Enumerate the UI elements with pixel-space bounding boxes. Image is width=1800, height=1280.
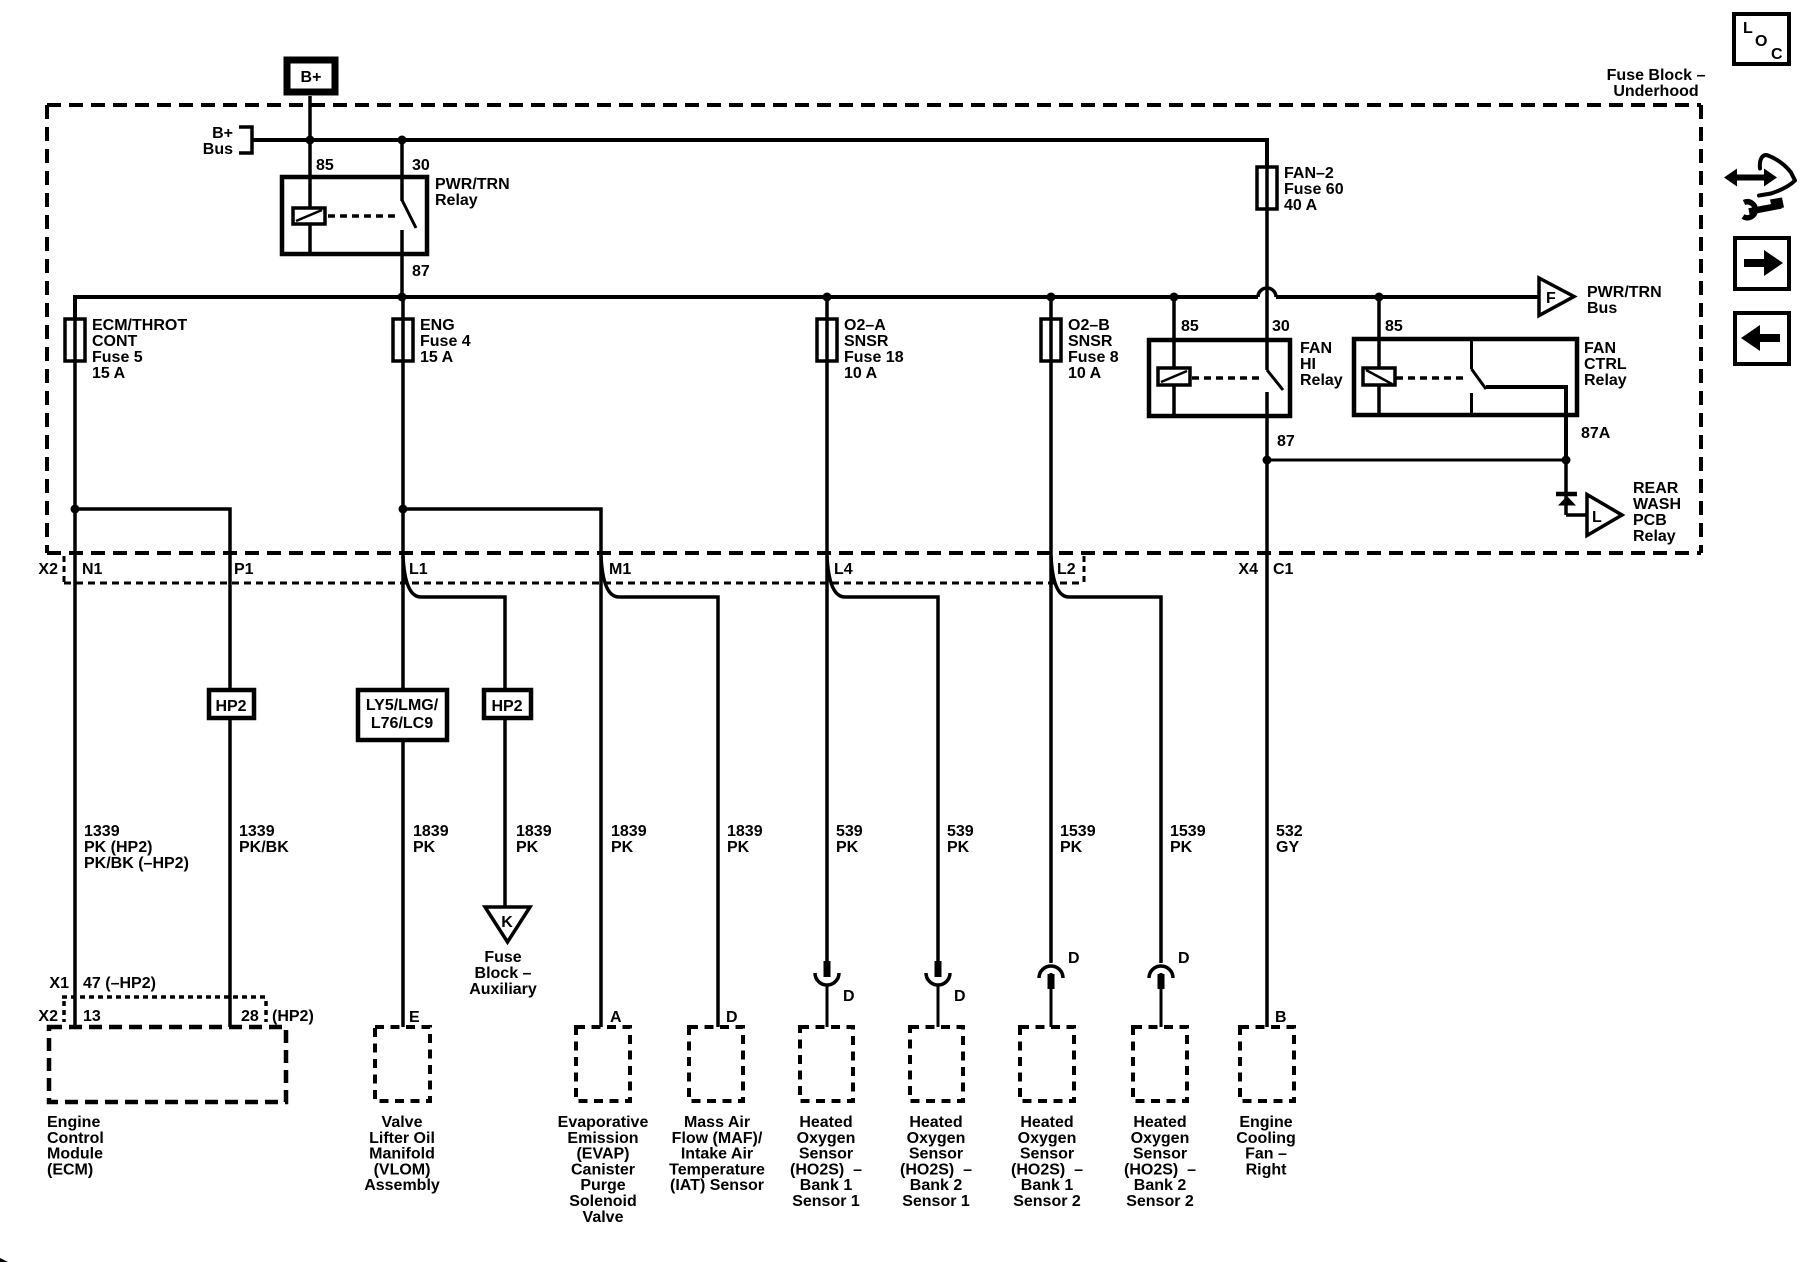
svg-text:PK: PK [727, 839, 750, 856]
svg-text:Bank 2: Bank 2 [910, 1177, 963, 1194]
svg-text:Sensor: Sensor [799, 1146, 853, 1163]
relay PWR/TRN box [282, 177, 427, 254]
svg-text:13: 13 [83, 1008, 101, 1025]
connector dashed box: VLOM [375, 1027, 430, 1101]
svg-text:GY: GY [1276, 839, 1299, 856]
svg-text:Fuse 18: Fuse 18 [844, 349, 904, 366]
connector dashed box: MAF/IAT sensor [689, 1027, 743, 1101]
connector dashed box: HO2S bank1 sensor2 [1020, 1027, 1074, 1101]
svg-text:87A: 87A [1581, 425, 1611, 442]
svg-text:30: 30 [412, 157, 430, 174]
svg-text:1839: 1839 [516, 823, 552, 840]
svg-text:(HP2): (HP2) [272, 1008, 314, 1025]
svg-text:Fuse 5: Fuse 5 [92, 349, 143, 366]
svg-text:(HO2S) –: (HO2S) – [790, 1161, 862, 1178]
wire jog L1 to auxiliary feed [403, 556, 505, 690]
svg-text:D: D [1068, 950, 1080, 967]
svg-text:L4: L4 [834, 561, 853, 578]
wire L4: O2-A fuse down to HO2S B1S1 [825, 299, 829, 962]
svg-text:Sensor: Sensor [909, 1146, 963, 1163]
wire jog L4 to HO2S B2S1 [827, 556, 938, 962]
svg-text:Block –: Block – [475, 965, 532, 982]
svg-text:Relay: Relay [1584, 372, 1627, 389]
svg-text:FAN: FAN [1584, 340, 1616, 357]
label Fuse Block - Underhood [1607, 67, 1706, 100]
wire: PWR/TRN 87 output bus with hop over fan wire [75, 297, 1539, 319]
svg-text:FAN: FAN [1300, 340, 1332, 357]
svg-text:A: A [610, 1009, 622, 1026]
B+ Bus label and bracket [203, 125, 252, 158]
relay FAN HI coil [1158, 368, 1190, 385]
svg-text:Lifter Oil: Lifter Oil [369, 1130, 435, 1147]
junction node at 87 [1263, 456, 1272, 465]
connector pin labels [38, 561, 1293, 578]
junction node at relay pin 30 tap [398, 136, 407, 145]
label X1 row: 47 (-HP2) [49, 975, 156, 992]
wire P1 below HP2 box to ECM pin 28 [228, 718, 232, 1027]
svg-text:1839: 1839 [413, 823, 449, 840]
svg-text:Bus: Bus [203, 141, 233, 158]
fuse O2-B SNSR Fuse 8 [1041, 317, 1119, 382]
svg-text:85: 85 [1385, 318, 1403, 335]
label Valve Lifter Oil Manifold (VLOM) Assembly [364, 1114, 440, 1194]
svg-text:Purge: Purge [580, 1177, 625, 1194]
connector dashed box: HO2S bank2 sensor1 [910, 1027, 963, 1101]
nav icon: double arrow with wrench [1724, 155, 1795, 218]
option box HP2 (auxiliary wire) [484, 690, 531, 718]
svg-text:PK: PK [611, 839, 634, 856]
svg-text:Emission: Emission [567, 1130, 638, 1147]
svg-text:Sensor 2: Sensor 2 [1126, 1193, 1194, 1210]
option box LY5/LMG/L76/LC9 [358, 690, 447, 740]
relay FAN CTRL switch common from top [1470, 341, 1473, 369]
svg-text:L: L [1743, 20, 1753, 37]
svg-text:K: K [501, 914, 513, 931]
wire label 539 PK (B1S1) [836, 823, 863, 856]
svg-text:Canister: Canister [571, 1161, 635, 1178]
relay FAN CTRL box [1354, 339, 1577, 415]
svg-text:Relay: Relay [1633, 528, 1676, 545]
svg-text:E: E [409, 1009, 420, 1026]
svg-text:ECM/THROT: ECM/THROT [92, 317, 187, 334]
svg-text:Engine: Engine [1239, 1114, 1292, 1131]
wire B+ terminal down to PWR/TRN relay coil [308, 96, 312, 208]
label PWR/TRN Relay [435, 176, 510, 209]
junction node at B+ drop [306, 136, 315, 145]
relay PWR/TRN coil [293, 208, 325, 224]
nav box: arrow right [1735, 238, 1789, 289]
label Engine Control Module (ECM) [47, 1114, 104, 1178]
svg-text:Fuse 60: Fuse 60 [1284, 181, 1344, 198]
svg-text:D: D [1178, 950, 1190, 967]
svg-text:Cooling: Cooling [1236, 1130, 1296, 1147]
svg-text:28: 28 [241, 1008, 259, 1025]
relay PWR/TRN dashed actuator link [328, 214, 398, 218]
svg-text:Bank 1: Bank 1 [1021, 1177, 1074, 1194]
label FAN HI Relay [1300, 340, 1343, 389]
svg-text:L2: L2 [1057, 561, 1076, 578]
svg-text:PK/BK: PK/BK [239, 839, 289, 856]
svg-text:1539: 1539 [1060, 823, 1096, 840]
svg-text:HI: HI [1300, 356, 1316, 373]
svg-text:FAN–2: FAN–2 [1284, 165, 1334, 182]
wire L1: ENG fuse down to VLOM [401, 299, 405, 690]
fuse O2-A SNSR Fuse 18 [817, 317, 904, 382]
svg-text:Module: Module [47, 1146, 103, 1163]
svg-text:Assembly: Assembly [364, 1177, 440, 1194]
label Mass Air Flow (MAF)/IAT Sensor [669, 1114, 765, 1194]
svg-text:PK (HP2): PK (HP2) [84, 839, 152, 856]
svg-text:SNSR: SNSR [1068, 333, 1113, 350]
svg-text:Temperature: Temperature [669, 1161, 765, 1178]
svg-text:539: 539 [836, 823, 863, 840]
svg-text:B+: B+ [212, 125, 233, 142]
connector row long-dash line (fuse block bottom edge) [47, 551, 1701, 555]
grommet pass-through D (HO2S B1S2) [1039, 966, 1063, 989]
label REAR WASH PCB Relay [1633, 480, 1681, 545]
svg-text:ENG: ENG [420, 317, 455, 334]
relay FAN CTRL coil [1363, 368, 1395, 385]
svg-text:PWR/TRN: PWR/TRN [1587, 284, 1662, 301]
wire jog L2 to HO2S B2S2 [1051, 556, 1161, 963]
wire branch to P1 [75, 509, 230, 690]
wire: B+ bus horizontal [252, 140, 1267, 167]
svg-text:1839: 1839 [611, 823, 647, 840]
svg-text:(ECM): (ECM) [47, 1161, 93, 1178]
svg-text:(EVAP): (EVAP) [576, 1146, 629, 1163]
connector dashed box: EVAP valve [576, 1027, 630, 1101]
connector dashed box: Engine Control Module [49, 1027, 286, 1102]
svg-text:PK: PK [413, 839, 436, 856]
svg-text:CTRL: CTRL [1584, 356, 1627, 373]
svg-text:Fuse Block –: Fuse Block – [1607, 67, 1706, 84]
wire label 1839 PK (VLOM) [413, 823, 449, 856]
svg-text:Valve: Valve [382, 1114, 423, 1131]
label HO2S Bank 2 Sensor 1 [900, 1114, 972, 1210]
junction node at 87A [1562, 456, 1571, 465]
option box HP2 (P1 wire) [209, 690, 254, 718]
junction node L1 branch [399, 505, 408, 514]
svg-text:Bank 1: Bank 1 [800, 1177, 853, 1194]
svg-text:C: C [1771, 46, 1783, 63]
svg-text:O2–A: O2–A [844, 317, 886, 334]
svg-text:1839: 1839 [727, 823, 763, 840]
pin labels FAN HI relay [1181, 318, 1295, 450]
svg-text:WASH: WASH [1633, 496, 1681, 513]
svg-text:Manifold: Manifold [369, 1146, 435, 1163]
page corner tick [0, 1258, 8, 1262]
connector dashed box: HO2S bank1 sensor1 [800, 1027, 853, 1101]
svg-text:Sensor 1: Sensor 1 [902, 1193, 970, 1210]
PWR/TRN Bus off-page arrow F [1539, 278, 1574, 316]
svg-text:Sensor 2: Sensor 2 [1013, 1193, 1081, 1210]
grommet pass-through D (HO2S B2S1) [926, 961, 950, 985]
wire label 1339 PK/BK [239, 823, 289, 856]
svg-text:1539: 1539 [1170, 823, 1206, 840]
wire label 1839 PK (EVAP) [611, 823, 647, 856]
svg-text:40 A: 40 A [1284, 197, 1318, 214]
fuse FAN-2 Fuse 60 [1257, 165, 1344, 214]
wire 87A down to diode [1564, 460, 1568, 515]
svg-text:PK: PK [836, 839, 859, 856]
svg-text:X2: X2 [38, 561, 58, 578]
svg-text:D: D [726, 1009, 738, 1026]
wire L2: O2-B fuse down to HO2S B1S2 [1049, 299, 1053, 963]
svg-text:Control: Control [47, 1130, 104, 1147]
relay FAN HI box [1149, 340, 1290, 416]
svg-text:Bus: Bus [1587, 300, 1617, 317]
svg-text:15 A: 15 A [420, 349, 454, 366]
diode (cathode up) [1556, 494, 1577, 506]
label HO2S Bank 2 Sensor 2 [1124, 1114, 1196, 1210]
off-page arrow K to Fuse Block Auxiliary [485, 907, 530, 942]
label Engine Cooling Fan - Right [1236, 1114, 1296, 1178]
label X2 row: 13 / 28 (HP2) [38, 1008, 313, 1025]
relay FAN HI switch blade [1267, 370, 1283, 390]
svg-text:Sensor: Sensor [1133, 1146, 1187, 1163]
X1 dotted separator [62, 995, 266, 999]
svg-text:Heated: Heated [1133, 1114, 1186, 1131]
svg-text:10 A: 10 A [1068, 365, 1102, 382]
svg-text:Valve: Valve [583, 1209, 624, 1226]
wire label 1839 PK (aux) [516, 823, 552, 856]
svg-text:Flow (MAF)/: Flow (MAF)/ [672, 1130, 763, 1147]
svg-text:Sensor 1: Sensor 1 [792, 1193, 860, 1210]
grommet pass-through D (HO2S B1S1) [815, 961, 839, 985]
svg-text:1339: 1339 [239, 823, 275, 840]
svg-text:1339: 1339 [84, 823, 120, 840]
wire below HP2 to K arrow [503, 718, 507, 907]
wire label 532 GY (fan) [1276, 823, 1303, 856]
relay FAN CTRL coil lower pin [1377, 385, 1381, 415]
relay FAN HI coil lower pin [1172, 385, 1176, 416]
wire FAN CTRL pin 85 from bus [1377, 297, 1381, 368]
svg-text:Fan –: Fan – [1245, 1146, 1287, 1163]
svg-text:(HO2S) –: (HO2S) – [900, 1161, 972, 1178]
pin labels PWR/TRN relay [316, 157, 430, 280]
svg-text:PK: PK [1060, 839, 1083, 856]
X2 tick left [62, 1001, 66, 1022]
wire C1: engine cooling fan feed [1265, 460, 1269, 1027]
LOC reference box [1734, 14, 1789, 64]
svg-text:(IAT) Sensor: (IAT) Sensor [670, 1177, 764, 1194]
svg-text:Fuse: Fuse [484, 949, 521, 966]
svg-text:10 A: 10 A [844, 365, 878, 382]
svg-text:Oxygen: Oxygen [1131, 1130, 1190, 1147]
svg-text:Oxygen: Oxygen [907, 1130, 966, 1147]
label HO2S Bank 1 Sensor 2 [1011, 1114, 1083, 1210]
svg-text:L1: L1 [409, 561, 428, 578]
svg-text:Right: Right [1246, 1161, 1288, 1178]
svg-text:O: O [1755, 33, 1767, 50]
svg-text:87: 87 [412, 263, 430, 280]
svg-text:Engine: Engine [47, 1114, 100, 1131]
svg-text:(HO2S) –: (HO2S) – [1011, 1161, 1083, 1178]
Fuse Block - Underhood dashed enclosure [47, 105, 1701, 553]
svg-text:(HO2S) –: (HO2S) – [1124, 1161, 1196, 1178]
relay FAN HI dashed actuator link [1192, 376, 1263, 380]
svg-text:REAR: REAR [1633, 480, 1679, 497]
svg-text:Intake Air: Intake Air [681, 1146, 753, 1163]
svg-text:C1: C1 [1273, 561, 1294, 578]
relay PWR/TRN switch blade [402, 200, 416, 228]
svg-text:B: B [1275, 1009, 1287, 1026]
svg-text:Auxiliary: Auxiliary [469, 981, 537, 998]
svg-text:L76/LC9: L76/LC9 [371, 715, 433, 732]
connector dashed box: engine cooling fan right [1240, 1027, 1294, 1101]
svg-text:Fuse 8: Fuse 8 [1068, 349, 1119, 366]
svg-text:PWR/TRN: PWR/TRN [435, 176, 510, 193]
svg-text:Relay: Relay [1300, 372, 1343, 389]
wire FAN CTRL 87A output [1486, 387, 1566, 460]
svg-text:B+: B+ [301, 69, 322, 86]
wire 87 to 87A link [1267, 459, 1566, 462]
svg-text:87: 87 [1277, 433, 1295, 450]
label FAN CTRL Relay [1584, 340, 1627, 389]
svg-text:P1: P1 [234, 561, 254, 578]
svg-text:Relay: Relay [435, 192, 478, 209]
label EVAP Canister Purge Solenoid Valve [558, 1114, 649, 1226]
label HO2S Bank 1 Sensor 1 [790, 1114, 862, 1210]
label Fuse Block - Auxiliary [469, 949, 537, 998]
svg-text:15 A: 15 A [92, 365, 126, 382]
connector dashed box: HO2S bank2 sensor2 [1133, 1027, 1187, 1101]
wire pin 87 down to bus [400, 230, 404, 297]
svg-text:Heated: Heated [1020, 1114, 1073, 1131]
connector tick left [63, 556, 66, 583]
svg-text:PK: PK [516, 839, 539, 856]
svg-text:Mass Air: Mass Air [684, 1114, 750, 1131]
wire branch to M1 [403, 509, 601, 1027]
svg-text:Heated: Heated [909, 1114, 962, 1131]
svg-text:(VLOM): (VLOM) [374, 1161, 431, 1178]
svg-text:85: 85 [1181, 318, 1199, 335]
svg-text:532: 532 [1276, 823, 1303, 840]
grommet pass-through D (HO2S B2S2) [1149, 966, 1173, 989]
wire label 1339 PK [84, 823, 189, 872]
svg-text:L: L [1592, 509, 1602, 526]
svg-text:47 (–HP2): 47 (–HP2) [83, 975, 156, 992]
svg-text:PK: PK [1170, 839, 1193, 856]
svg-text:Underhood: Underhood [1613, 83, 1698, 100]
svg-text:O2–B: O2–B [1068, 317, 1110, 334]
svg-text:85: 85 [316, 157, 334, 174]
svg-text:539: 539 [947, 823, 974, 840]
svg-text:X2: X2 [38, 1008, 58, 1025]
svg-text:CONT: CONT [92, 333, 138, 350]
wire label 539 PK (B2S1) [947, 823, 974, 856]
wire N1: ECM/THROT fuse to ECM pin 13 [73, 299, 77, 1027]
svg-text:PCB: PCB [1633, 512, 1667, 529]
wire FAN HI pin 85 from bus [1172, 297, 1176, 368]
relay FAN CTRL dashed actuator link [1396, 376, 1468, 380]
svg-text:Oxygen: Oxygen [1018, 1130, 1077, 1147]
svg-text:Evaporative: Evaporative [558, 1114, 649, 1131]
relay FAN CTRL unused throw stub [1470, 393, 1473, 413]
svg-text:Oxygen: Oxygen [797, 1130, 856, 1147]
wire label 1839 PK (MAF) [727, 823, 763, 856]
B+ power terminal box [287, 60, 335, 92]
svg-text:Heated: Heated [799, 1114, 852, 1131]
svg-text:F: F [1546, 290, 1556, 307]
svg-text:HP2: HP2 [215, 698, 246, 715]
svg-text:X1: X1 [49, 975, 69, 992]
svg-text:30: 30 [1272, 318, 1290, 335]
svg-text:M1: M1 [609, 561, 631, 578]
fuse ECM/THROT CONT Fuse 5 [65, 317, 187, 382]
svg-text:HP2: HP2 [491, 698, 522, 715]
wire diode to L arrow [1566, 513, 1587, 517]
connector row short-dash line [64, 582, 1084, 585]
off-page arrow L [1587, 495, 1622, 536]
svg-text:N1: N1 [82, 561, 103, 578]
wire jog M1 to MAF feed [601, 556, 718, 1027]
wire FAN HI pin 87 down [1265, 392, 1269, 460]
svg-text:D: D [843, 988, 855, 1005]
svg-text:D: D [954, 988, 966, 1005]
svg-text:LY5/LMG/: LY5/LMG/ [366, 697, 439, 714]
junction node N1 branch [71, 505, 80, 514]
X2 tick right [264, 1001, 268, 1022]
connector tick right [1083, 556, 1086, 583]
svg-text:SNSR: SNSR [844, 333, 889, 350]
wire label 1539 PK (B2S2) [1170, 823, 1206, 856]
junction nodes on 87 bus [398, 293, 1384, 302]
svg-text:Solenoid: Solenoid [569, 1193, 637, 1210]
wire pin 30 into relay [400, 140, 404, 201]
nav box: arrow left [1735, 313, 1789, 364]
wire FAN-2 fuse down to FAN HI relay pin 30 [1265, 142, 1269, 370]
svg-text:X4: X4 [1238, 561, 1258, 578]
relay PWR/TRN coil pin 85 wire segment [308, 224, 312, 254]
relay FAN CTRL switch blade [1472, 369, 1487, 389]
svg-text:PK: PK [947, 839, 970, 856]
label PWR/TRN Bus [1587, 284, 1662, 317]
wire label 1539 PK (B1S2) [1060, 823, 1096, 856]
fuse ENG Fuse 4 [393, 317, 471, 366]
svg-text:Sensor: Sensor [1020, 1146, 1074, 1163]
svg-text:Fuse 4: Fuse 4 [420, 333, 471, 350]
svg-text:Bank 2: Bank 2 [1134, 1177, 1187, 1194]
svg-text:PK/BK (–HP2): PK/BK (–HP2) [84, 855, 189, 872]
